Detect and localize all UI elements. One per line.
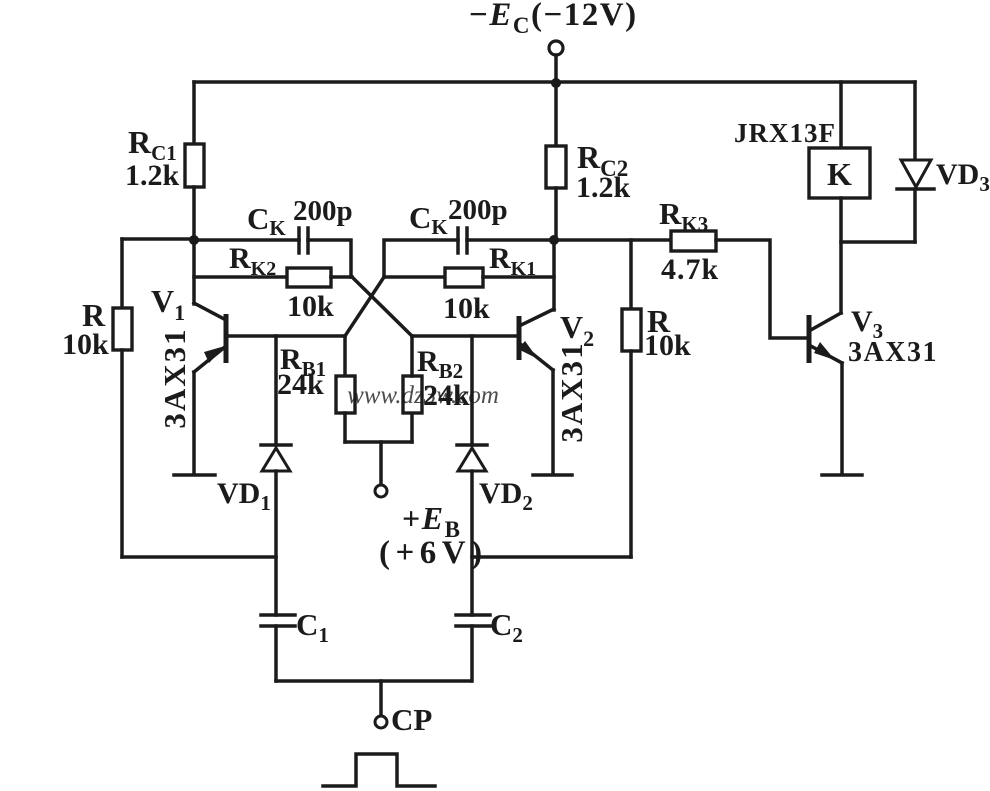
wire C1 to bottom rail <box>274 626 278 681</box>
wire rail to VD3 <box>913 82 917 160</box>
wire VD3 down <box>913 189 917 242</box>
label R 10k left <box>62 297 109 361</box>
svg-text:JRX13F: JRX13F <box>734 118 836 148</box>
wire rail to relay <box>839 82 843 148</box>
svg-text:1.2k: 1.2k <box>576 171 631 204</box>
diode VD2 <box>457 445 487 471</box>
wire node B to RK3 <box>554 238 671 242</box>
junction dot on top rail <box>551 78 561 88</box>
svg-text:10k: 10k <box>62 328 109 361</box>
wire left rail to VD1 column <box>122 555 276 559</box>
wire left rail upper <box>120 239 124 308</box>
wire RC2 to node B <box>554 188 558 241</box>
capacitor C1 <box>261 615 295 626</box>
node B: V2 collector junction dot <box>549 235 559 245</box>
svg-text:CP: CP <box>391 702 432 737</box>
svg-text:10k: 10k <box>287 290 334 323</box>
wire node A to V1 collector <box>192 240 196 304</box>
wire CP stub <box>379 681 383 716</box>
pulse waveform symbol <box>323 754 435 786</box>
wire R right down <box>629 351 633 557</box>
resistor RC1 <box>185 144 204 187</box>
svg-text:1.2k: 1.2k <box>125 159 180 192</box>
wire CK right corner <box>384 240 458 277</box>
capacitor C2 <box>456 615 490 626</box>
label RB2 24k <box>417 345 470 412</box>
wire left rail lower <box>120 350 124 557</box>
label RK3 4.7k <box>659 196 719 286</box>
svg-text:24k: 24k <box>277 368 324 401</box>
wire RB1 top <box>343 336 347 376</box>
diode VD1 <box>261 445 291 471</box>
svg-text:200p: 200p <box>293 195 353 227</box>
svg-text:www.dz3w.com: www.dz3w.com <box>347 382 499 409</box>
label R 10k right <box>644 303 691 362</box>
wire cross-couple to V2 base <box>352 277 412 336</box>
capacitor CK right <box>458 228 467 253</box>
svg-text:3AX31: 3AX31 <box>554 341 589 442</box>
label RK1 10k <box>443 242 536 325</box>
relay K box <box>809 148 870 198</box>
label RC2 1.2k <box>576 139 631 204</box>
wire VD1 to C1 <box>274 471 278 615</box>
wire VD2 branch <box>470 336 474 445</box>
svg-text:10k: 10k <box>644 329 691 362</box>
wire VD3 to relay column <box>841 240 915 244</box>
wire node A to CK left <box>194 238 299 242</box>
transistor V3 <box>809 313 842 363</box>
ground V2 <box>533 473 572 477</box>
resistor R right 10k <box>622 309 641 351</box>
label CK 200p left <box>247 195 353 240</box>
wire RB2 top <box>410 336 414 376</box>
bottom rail to CP <box>276 679 471 683</box>
wire RB1 bottom <box>343 413 347 442</box>
wire rail to RC1 <box>192 82 196 144</box>
wire VD2 to C2 <box>470 471 474 615</box>
wire EB rail <box>345 440 412 444</box>
svg-text:3AX31: 3AX31 <box>848 337 938 368</box>
wire RK1 left <box>384 275 445 279</box>
wire RB2 bottom <box>410 413 414 442</box>
svg-text:200p: 200p <box>448 194 508 226</box>
resistor RB2 <box>403 376 422 413</box>
transistor V1 <box>194 303 226 372</box>
wire cross-couple to V1 base <box>345 277 384 336</box>
wire right R branch <box>629 240 633 309</box>
svg-text:3AX31: 3AX31 <box>157 327 192 428</box>
wire V2 collector <box>552 240 556 310</box>
top power rail <box>194 80 915 84</box>
transistor V2 <box>518 309 554 370</box>
resistor R left 10k <box>113 308 132 350</box>
svg-text:−EC(−12V): −EC(−12V) <box>469 0 638 38</box>
label RB1 24k <box>277 343 326 401</box>
wire RC1 to node A <box>192 187 196 241</box>
node A: V1 collector junction dot <box>189 235 199 245</box>
label RK2 10k <box>229 242 334 323</box>
svg-text:10k: 10k <box>443 292 490 325</box>
wire terminal to top rail <box>554 55 558 82</box>
CP terminal circle <box>375 716 387 728</box>
terminal EB circle <box>375 485 387 497</box>
power terminal -EC <box>549 41 563 55</box>
resistor RB1 <box>336 376 355 413</box>
wire VD1 branch <box>274 336 278 445</box>
wire node A to left rail <box>122 237 194 241</box>
wire RK2 left <box>194 275 287 279</box>
resistor RC2 <box>546 146 566 188</box>
svg-text:K: K <box>827 156 852 192</box>
wire R right to VD2 column <box>472 555 631 559</box>
wire V1 emitter down <box>192 372 196 473</box>
resistor RK2 <box>287 268 331 287</box>
diode VD3 <box>897 160 934 189</box>
svg-text:4.7k: 4.7k <box>661 253 719 286</box>
label +EB (+6V) <box>379 500 488 571</box>
ground V1 <box>174 473 215 477</box>
wire RK1 right <box>483 275 554 279</box>
ground V3 <box>822 473 862 477</box>
resistor RK1 <box>445 268 483 287</box>
wire C2 to bottom rail <box>470 626 474 681</box>
wire RK3 to V3 base <box>716 240 809 338</box>
label RC1 1.2k <box>125 124 180 192</box>
resistor RK3 <box>671 231 716 251</box>
wire relay to V3 collector <box>839 198 843 313</box>
wire RK2 right <box>331 275 352 279</box>
wire CK right to node B <box>467 238 554 242</box>
wire V3 emitter down <box>840 363 844 473</box>
wire rail to RC2 <box>554 82 558 146</box>
wire EB stub <box>379 442 383 485</box>
capacitor CK left <box>299 228 308 253</box>
wire CK left to RK2 right corner <box>308 240 351 277</box>
wire V2 emitter down <box>551 370 555 473</box>
wire V2 base <box>412 334 518 338</box>
label CK 200p right <box>409 194 508 239</box>
wire V1 base <box>226 334 345 338</box>
